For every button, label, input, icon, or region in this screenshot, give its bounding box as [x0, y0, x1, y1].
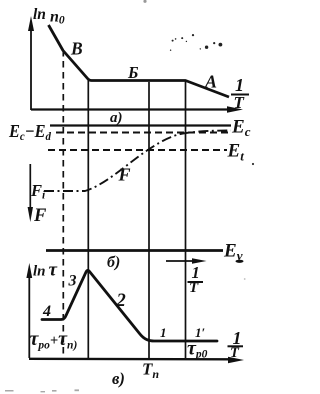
label 1: [160, 325, 167, 340]
solid vertical guide line 2: [148, 82, 150, 358]
faint dot top edge: [143, 0, 146, 3]
label F at arrow: [33, 206, 47, 226]
x-axis graph в: [29, 357, 244, 363]
y-axis graph a: [28, 16, 34, 110]
svg-text:А: А: [204, 72, 217, 92]
label tau_p0: [187, 338, 208, 361]
dashed vertical guide line: [62, 50, 64, 358]
svg-text:3: 3: [68, 273, 77, 290]
label Б: [127, 63, 139, 82]
svg-text:T: T: [234, 93, 245, 112]
Fermi level F dash-dot curve: [44, 131, 231, 192]
label Fi: [30, 181, 46, 202]
svg-text:а): а): [110, 110, 123, 126]
label 2: [116, 291, 126, 311]
label tau_po + tau_n: [30, 328, 78, 352]
svg-text:в): в): [112, 369, 125, 388]
label 1/T graph a: [231, 75, 249, 112]
label А: [204, 72, 217, 92]
label 1': [195, 325, 206, 340]
label Ev right: [223, 241, 243, 264]
svg-text:1: 1: [235, 75, 244, 95]
svg-text:n0: n0: [50, 9, 65, 27]
label 1/T graph б: [188, 263, 204, 296]
svg-text:Et: Et: [227, 141, 245, 164]
solid vertical guide line 1: [87, 80, 89, 358]
faint dot right middle: [244, 278, 246, 280]
svg-text:4: 4: [42, 303, 51, 320]
label 3: [68, 273, 77, 290]
1/T arrow graph б: [166, 258, 207, 264]
down arrow F: [28, 164, 33, 222]
scan noise specks top right: [170, 34, 222, 51]
label Ec right: [231, 117, 251, 140]
svg-text:Ec−Ed: Ec−Ed: [8, 121, 52, 143]
label F on curve: [118, 165, 131, 185]
svg-text:ln: ln: [33, 6, 46, 23]
label б): [107, 254, 120, 271]
svg-text:T: T: [230, 345, 240, 361]
svg-text:Fi: Fi: [30, 181, 46, 202]
svg-text:τ: τ: [49, 260, 58, 281]
Ec level line: [50, 124, 231, 126]
y-axis graph в: [26, 263, 32, 358]
svg-text:Ev: Ev: [223, 241, 243, 264]
svg-text:ln: ln: [33, 264, 46, 280]
svg-text:Ec: Ec: [231, 117, 251, 140]
x-axis graph a: [31, 106, 243, 112]
svg-text:τpo+τп): τpo+τп): [30, 328, 78, 352]
svg-text:1: 1: [160, 325, 167, 340]
svg-text:Tп: Tп: [142, 360, 159, 382]
label Et right: [227, 141, 245, 164]
label ln n0: [33, 6, 65, 27]
svg-text:F: F: [33, 206, 47, 226]
svg-text:Б: Б: [127, 63, 139, 82]
label а): [110, 110, 123, 126]
label 4: [42, 303, 51, 320]
label Ec-Ed left: [8, 121, 52, 143]
label T_n below axis: [142, 360, 159, 382]
label ln tau: [33, 260, 58, 281]
solid vertical guide line 3: [185, 81, 187, 358]
faint cut-off text marks bottom edge: [5, 389, 79, 392]
svg-text:В: В: [70, 39, 83, 59]
svg-text:2: 2: [116, 291, 126, 311]
label В: [70, 39, 83, 59]
lifetime curve 4-3-2-1: [42, 270, 217, 341]
curve B-Б-A graph a: [49, 25, 230, 97]
Ev level line: [46, 249, 223, 252]
label 1/T graph в: [228, 328, 244, 361]
label в): [112, 369, 125, 388]
svg-text:1′: 1′: [195, 325, 206, 340]
Ec-Ed dashed level line: [56, 132, 230, 134]
Et dashed level line: [48, 149, 227, 151]
svg-text:б): б): [107, 254, 120, 271]
speck near Et: [252, 163, 254, 165]
svg-text:F: F: [118, 165, 131, 185]
ink blob below Ev: [236, 260, 244, 263]
svg-text:T: T: [189, 280, 199, 296]
